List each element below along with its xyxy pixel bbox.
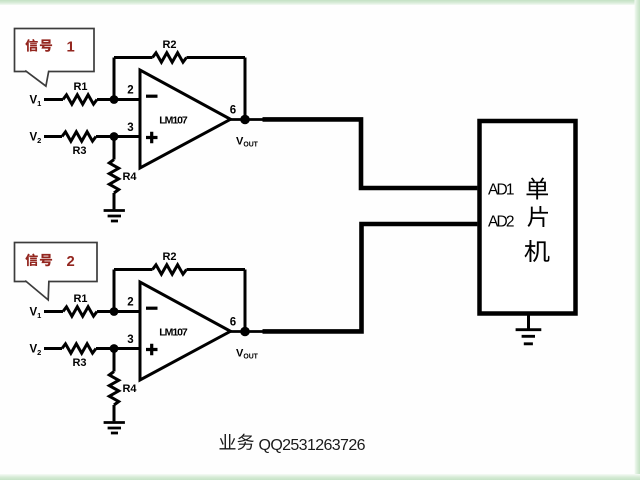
- minus marker inverting input: [146, 307, 158, 310]
- label R4: [122, 383, 137, 395]
- svg-text:6: 6: [230, 317, 236, 329]
- ground symbol under box: [516, 330, 542, 344]
- wire amp2 output to AD2: [263, 224, 478, 331]
- label R4: [122, 171, 137, 183]
- node junction pin3/R4 (dot): [110, 344, 119, 353]
- feedback top wire right segment: [187, 268, 246, 271]
- output node 6 (dot): [240, 115, 250, 125]
- svg-text:R2: R2: [162, 251, 176, 263]
- svg-text:R4: R4: [122, 383, 137, 395]
- resistor R1: [63, 307, 97, 316]
- resistor R2 feedback: [153, 53, 187, 62]
- op-amp U1 LM107 triangle: [140, 70, 231, 168]
- feedback wire down to output: [244, 58, 247, 120]
- green page frame top band: [0, 0, 640, 5]
- svg-text:AD2: AD2: [488, 214, 515, 231]
- ground symbol amp 2: [104, 423, 125, 434]
- label LM107: [159, 114, 188, 126]
- label 机: [524, 240, 549, 262]
- svg-text:3: 3: [127, 122, 133, 134]
- svg-text:R3: R3: [72, 357, 86, 369]
- svg-text:LM107: LM107: [159, 326, 188, 338]
- green page frame right band: [635, 0, 640, 480]
- minus marker inverting input: [146, 95, 158, 98]
- resistor R4: [109, 160, 118, 194]
- wire V1 to R1: [44, 310, 63, 313]
- resistor R1: [63, 95, 97, 104]
- label VOUT: [236, 348, 259, 361]
- node junction pin3/R4 (dot): [110, 132, 119, 141]
- label pin 2: [127, 297, 133, 309]
- speech bubble 信号2 box: [15, 243, 98, 300]
- feedback wire down to output: [244, 270, 247, 332]
- wire R3 to non-inverting input pin 3: [96, 135, 140, 138]
- speech bubble text 信号 1: [25, 39, 74, 56]
- label R1: [73, 293, 87, 305]
- node junction pin2/R2 feedback (dot): [110, 95, 119, 104]
- output node 6 (dot): [240, 327, 250, 337]
- label LM107: [159, 326, 188, 338]
- feedback wire up from node 2: [113, 58, 116, 100]
- label R2: [162, 39, 176, 51]
- svg-text:1: 1: [67, 40, 75, 56]
- svg-text:R1: R1: [73, 293, 87, 305]
- svg-text:R1: R1: [73, 81, 87, 93]
- label V1 input 2: [30, 307, 42, 321]
- resistor R2 feedback: [153, 265, 187, 274]
- label pin 6: [230, 317, 236, 329]
- label AD1: [488, 182, 515, 199]
- wire V2 to R3: [44, 135, 62, 138]
- wire box to ground: [527, 314, 530, 330]
- svg-text:R4: R4: [122, 171, 137, 183]
- label R1: [73, 81, 87, 93]
- wire V1 to R1: [44, 98, 63, 101]
- label R3: [72, 145, 86, 157]
- label AD2: [488, 214, 515, 231]
- svg-text:2: 2: [127, 297, 133, 309]
- plus marker non-inverting input: [146, 132, 158, 144]
- feedback wire up from node 2: [113, 270, 116, 312]
- resistor R3: [62, 132, 96, 141]
- wire node 3 down to R4: [113, 349, 116, 372]
- op-amp U2 LM107 triangle: [140, 282, 231, 380]
- wire op-amp output: [231, 330, 265, 333]
- svg-text:LM107: LM107: [159, 114, 188, 126]
- svg-text:6: 6: [230, 105, 236, 117]
- node junction pin2/R2 feedback (dot): [110, 307, 119, 316]
- label R3: [72, 357, 86, 369]
- speech bubble 信号1 box: [15, 29, 95, 87]
- label pin 3: [127, 122, 133, 134]
- svg-text:2: 2: [67, 254, 75, 270]
- wire R4 to ground: [113, 405, 116, 421]
- resistor R4: [109, 372, 118, 406]
- label 片: [528, 206, 549, 227]
- label pin 2: [127, 85, 133, 97]
- green page frame bottom band: [0, 474, 640, 480]
- svg-text:AD1: AD1: [488, 182, 515, 199]
- label VOUT: [236, 136, 259, 149]
- wire R4 to ground: [113, 193, 116, 209]
- speech bubble text 信号 2: [25, 253, 74, 270]
- svg-text:R2: R2: [162, 39, 176, 51]
- microcontroller box 单片机: [480, 121, 576, 314]
- svg-text:QQ2531263726: QQ2531263726: [259, 437, 366, 454]
- feedback top wire left segment: [114, 56, 153, 59]
- wire amp1 output to AD1: [263, 119, 478, 188]
- wire V2 to R3: [44, 347, 62, 350]
- label pin 6: [230, 105, 236, 117]
- label pin 3: [127, 334, 133, 346]
- svg-text:2: 2: [127, 85, 133, 97]
- label V2 input 1: [30, 132, 42, 146]
- feedback top wire right segment: [187, 56, 246, 59]
- wire R1 to inverting input pin 2: [97, 310, 140, 313]
- ground symbol amp 1: [104, 211, 125, 222]
- label R2: [162, 251, 176, 263]
- label V1 input 1: [30, 95, 42, 109]
- wire op-amp output: [231, 118, 265, 121]
- label V2 input 2: [30, 344, 42, 358]
- watermark text 业务 QQ2531263726: [219, 434, 365, 454]
- plus marker non-inverting input: [146, 344, 158, 356]
- resistor R3: [62, 344, 96, 353]
- svg-text:R3: R3: [72, 145, 86, 157]
- svg-text:3: 3: [127, 334, 133, 346]
- wire node 3 down to R4: [113, 137, 116, 160]
- wire R1 to inverting input pin 2: [97, 98, 140, 101]
- feedback top wire left segment: [114, 268, 153, 271]
- label 单: [526, 178, 548, 200]
- wire R3 to non-inverting input pin 3: [96, 347, 140, 350]
